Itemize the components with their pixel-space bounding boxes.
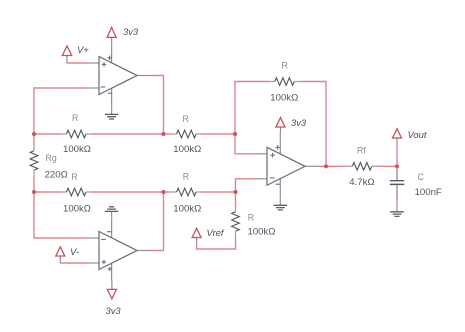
wire chain1 segment R1 to node B: [91, 133, 164, 135]
node A junction dot: [32, 132, 36, 136]
svg-text:4.7kΩ: 4.7kΩ: [349, 177, 374, 188]
wire U1 V- pin to ground (tick): [111, 105, 113, 108]
capacitor C 100nF: [390, 172, 442, 200]
wire V- to U2 noninverting input: [60, 262, 87, 264]
ground above U2 (flipped): [105, 207, 119, 217]
resistor R5 100k (feedback): [270, 61, 300, 104]
Vout node junction dot: [395, 164, 399, 168]
port 3v3 (bottom, U2 supply, pointing down): [106, 284, 122, 316]
node D junction dot: [32, 190, 36, 194]
wire U1 inverting input to left column: [34, 88, 87, 134]
resistor Rf 4.7k: [347, 145, 377, 188]
svg-text:100kΩ: 100kΩ: [248, 226, 276, 237]
wire 3v3 port to U1 V+ pin (tick): [111, 41, 113, 44]
wire chain2 segment R4 to node F: [201, 191, 236, 193]
node C junction dot: [233, 132, 237, 136]
wire Vout node up to Vout port: [396, 143, 398, 167]
wire node C to U3 noninverting input: [235, 134, 255, 154]
port Vout: [393, 129, 427, 143]
resistor Rg 220 (vertical): [30, 146, 68, 181]
resistor R4 100k (chain2 right): [172, 172, 202, 215]
wire chain1 segment node B to R2: [164, 133, 172, 135]
svg-text:R: R: [282, 61, 288, 71]
svg-text:R: R: [183, 172, 189, 182]
wire node D down to U2 inverting input: [34, 192, 87, 238]
wire U1 output down to node B: [150, 76, 164, 135]
wire U3 output to Rf: [318, 165, 347, 167]
wire chain1 segment R2 to node C: [201, 133, 235, 135]
ground below U3: [274, 200, 288, 210]
wire Rf to Vout node: [377, 165, 397, 167]
svg-text:R: R: [248, 212, 254, 222]
port V-: [56, 246, 79, 263]
node E junction dot: [161, 190, 165, 194]
wire 3v3 port to U3 V+ pin (tick): [279, 133, 281, 136]
wire V+ to U1 noninverting input: [67, 62, 87, 64]
port 3v3 (top, U1 supply): [107, 26, 139, 41]
svg-text:100nF: 100nF: [415, 187, 442, 198]
wire feedback right leg R5 down to output node: [299, 82, 326, 167]
svg-text:220Ω: 220Ω: [45, 170, 68, 181]
wire node F down to R6: [235, 192, 237, 207]
output node junction dot: [324, 164, 328, 168]
svg-text:100kΩ: 100kΩ: [173, 203, 201, 214]
wire node F to U3 inverting input: [236, 179, 256, 192]
port 3v3 (middle, U3 supply): [276, 117, 307, 133]
resistor R6 100k (to Vref): [232, 207, 276, 238]
ground below capacitor: [390, 205, 404, 216]
svg-text:V-: V-: [70, 246, 79, 257]
svg-text:R: R: [71, 172, 77, 182]
svg-text:100kΩ: 100kΩ: [270, 92, 298, 103]
svg-text:C: C: [418, 172, 425, 182]
ground below U1: [105, 108, 119, 119]
node B junction dot: [161, 132, 165, 136]
wire chain1 segment left (node to R1): [34, 133, 62, 135]
svg-text:100kΩ: 100kΩ: [63, 144, 91, 155]
wire chain2 segment R3 to node E: [91, 191, 164, 193]
svg-text:3v3: 3v3: [106, 305, 122, 316]
svg-text:R: R: [183, 114, 189, 124]
svg-text:100kΩ: 100kΩ: [63, 203, 91, 214]
wire ground to U2 V- pin (tick): [111, 217, 113, 220]
wire chain2 segment node D to R3: [34, 191, 62, 193]
svg-text:3v3: 3v3: [123, 26, 139, 37]
port V+: [62, 44, 89, 63]
port Vref: [192, 227, 225, 244]
svg-text:Rf: Rf: [357, 145, 366, 155]
node F junction dot: [233, 190, 237, 194]
svg-text:Vref: Vref: [207, 227, 225, 238]
svg-text:Rg: Rg: [46, 153, 57, 163]
op-amp U3: [255, 136, 318, 197]
svg-text:R: R: [72, 113, 78, 123]
op-amp U2: [87, 219, 150, 281]
svg-text:3v3: 3v3: [291, 117, 307, 128]
wire R6 bottom to Vref port: [197, 236, 236, 249]
resistor R2 100k (chain1 right): [172, 114, 202, 155]
wire U2 output up to node E: [150, 192, 164, 251]
wire U3 V- pin to ground (tick): [279, 197, 281, 199]
resistor R1 100k (chain1 left): [62, 113, 91, 155]
svg-text:V+: V+: [77, 44, 89, 55]
wire chain2 segment node E to R4: [164, 191, 172, 193]
wire Rg to node D: [33, 175, 35, 192]
resistor R3 100k (chain2 left): [62, 172, 91, 215]
op-amp U1: [87, 44, 150, 105]
wire left column node A to Rg: [33, 134, 35, 146]
wire capacitor to ground: [396, 199, 398, 205]
svg-text:100kΩ: 100kΩ: [173, 144, 201, 155]
wire U2 V+ pin to 3v3 port (tick): [111, 281, 113, 284]
svg-text:Vout: Vout: [408, 129, 427, 140]
wire feedback left leg node C up to R5: [235, 82, 270, 135]
wire Vout node down to capacitor: [396, 166, 398, 171]
